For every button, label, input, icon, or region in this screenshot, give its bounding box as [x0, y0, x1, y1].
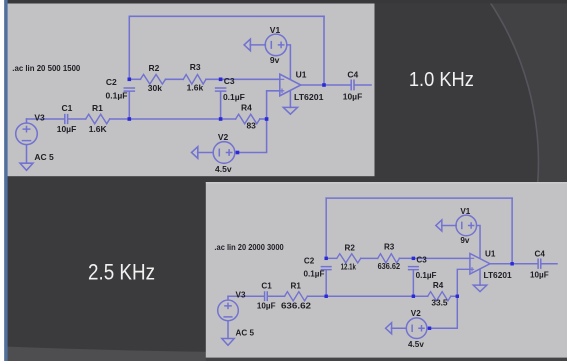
svg-text:R1: R1: [92, 103, 103, 113]
label 1.0 KHz: [409, 68, 474, 91]
svg-text:0.1µF: 0.1µF: [223, 92, 245, 102]
svg-text:0.1µF: 0.1µF: [416, 271, 437, 280]
wire C4 to panel edge: [541, 263, 557, 265]
svg-text:33.5: 33.5: [431, 299, 448, 308]
wire op-amp negative supply to ground: [289, 91, 291, 108]
svg-text:LT6201: LT6201: [483, 271, 512, 280]
svg-text:LT6201: LT6201: [294, 92, 324, 102]
svg-text:9v: 9v: [270, 55, 280, 65]
svg-text:R3: R3: [190, 62, 201, 72]
node R4 feedback junction: [456, 295, 459, 298]
node C3 top junction: [219, 78, 223, 82]
svg-text:2.5 KHz: 2.5 KHz: [88, 260, 155, 285]
resistor R3 636.62: [378, 243, 401, 271]
ground arrow at V1: [436, 220, 442, 231]
capacitor C3 0.1uF: [216, 76, 245, 102]
svg-text:1.0 KHz: 1.0 KHz: [409, 68, 474, 91]
wire node C2 to R2: [129, 78, 140, 80]
voltage source V1 9v: [456, 207, 477, 245]
resistor R1 1.6K: [86, 103, 110, 134]
capacitor C1 10uF: [257, 281, 276, 310]
wire R4 to node: [451, 295, 457, 297]
voltage source V1 9v: [265, 25, 287, 65]
svg-text:10µF: 10µF: [57, 124, 77, 134]
wire C2 lower lead to bottom rail: [128, 91, 130, 119]
wire feedback top: [326, 197, 512, 199]
svg-text:V3: V3: [236, 291, 246, 300]
wire R2 to R3: [166, 78, 184, 80]
wire V3 to C1: [228, 295, 264, 297]
node C2 bottom junction: [128, 117, 132, 121]
wire feedback left vertical: [325, 198, 327, 258]
svg-text:V1: V1: [460, 207, 470, 216]
spice directive .ac lin 20 2000 3000: [214, 243, 284, 252]
svg-text:636.62: 636.62: [281, 301, 312, 310]
wire C4 to panel edge: [355, 84, 371, 86]
svg-text:C3: C3: [224, 76, 235, 86]
svg-text:AC 5: AC 5: [236, 328, 255, 337]
svg-text:1.6k: 1.6k: [187, 82, 204, 92]
schematic 1 circuit: [12, 16, 371, 174]
ground below V3: [20, 163, 33, 170]
wire V1 plus to op-amp supply: [477, 225, 480, 257]
ground below op-amp: [283, 107, 297, 114]
wire R2 to R3: [361, 257, 378, 259]
wire op-amp noninverting input to V2: [427, 269, 470, 328]
bottom strip under panel 2: [206, 358, 567, 361]
svg-text:U1: U1: [485, 250, 496, 259]
wire node C2 to R2: [326, 257, 337, 259]
node C2 top junction: [324, 257, 327, 260]
svg-text:0.1µF: 0.1µF: [106, 91, 128, 101]
wire op-amp negative supply to ground: [479, 269, 481, 285]
resistor R2 12.1k: [337, 243, 361, 271]
schematic panel 1: [8, 4, 375, 177]
svg-text:R3: R3: [384, 243, 395, 252]
svg-text:12.1k: 12.1k: [341, 262, 357, 271]
wire V3 to C1: [27, 118, 65, 120]
wire C1 to R1: [68, 118, 86, 120]
svg-text:0.1µF: 0.1µF: [304, 270, 325, 279]
voltage source V3 AC 5: [16, 113, 54, 163]
ground below V3: [222, 338, 234, 345]
wire bottom rail R1 to R4: [307, 295, 427, 297]
node C2 top junction: [128, 78, 132, 82]
wire C3 lower lead to bottom rail: [220, 91, 222, 119]
node R4 feedback junction: [265, 117, 269, 121]
resistor R4 33.5: [428, 281, 451, 307]
svg-text:C4: C4: [347, 70, 358, 80]
svg-text:C3: C3: [416, 256, 427, 265]
bottom band: [0, 346, 567, 361]
svg-text:V2: V2: [218, 132, 229, 142]
wire V1 ground arrow to V1: [442, 224, 457, 226]
svg-text:.ac lin 20 500 1500: .ac lin 20 500 1500: [12, 63, 80, 73]
node C3 bottom junction: [219, 117, 223, 121]
svg-text:R4: R4: [433, 281, 444, 290]
node C2 bottom junction: [324, 295, 327, 298]
schematic panel 2: [206, 182, 567, 357]
voltage source V2 4.5v: [406, 309, 427, 349]
node V2 positive junction: [236, 151, 240, 155]
svg-text:10µF: 10µF: [257, 302, 276, 311]
svg-text:10µF: 10µF: [530, 271, 549, 280]
node V2 positive junction: [428, 327, 431, 330]
wire V2 ground arrow to V2: [198, 152, 214, 154]
wire V3 top lead: [227, 296, 229, 300]
capacitor C2 0.1uF: [106, 77, 135, 101]
wire feedback right vertical: [511, 198, 513, 264]
capacitor C3 0.1uF: [409, 256, 437, 280]
wire C1 to R1: [268, 295, 285, 297]
svg-text:C2: C2: [304, 257, 315, 266]
svg-text:C2: C2: [106, 77, 117, 87]
left blue edge line: [4, 0, 7, 361]
ground arrow at V2: [386, 323, 392, 334]
resistor R4 83: [236, 103, 260, 131]
svg-text:V1: V1: [270, 25, 281, 35]
op-amp U1 LT6201: [470, 250, 512, 280]
wire V1 plus to op-amp supply: [287, 45, 291, 79]
background circle arc highlight: [489, 0, 567, 182]
svg-text:30k: 30k: [148, 83, 162, 93]
wire C3 to op-amp inverting input: [221, 78, 280, 80]
wire C2 lower lead to bottom rail: [325, 270, 327, 296]
svg-text:C1: C1: [62, 103, 73, 113]
svg-text:R1: R1: [291, 282, 302, 291]
ground arrow at V1: [244, 39, 250, 51]
svg-text:9v: 9v: [460, 236, 470, 245]
wire C3 to op-amp inverting input: [413, 257, 470, 259]
wire op-amp noninverting input to V2: [235, 91, 280, 153]
wire feedback right vertical: [323, 16, 325, 85]
op-amp U1 LT6201: [280, 69, 324, 101]
svg-text:4.5v: 4.5v: [408, 340, 424, 349]
svg-text:V3: V3: [34, 113, 45, 123]
svg-text:AC 5: AC 5: [34, 152, 54, 162]
top dark bar: [0, 0, 567, 4]
ground below op-amp: [473, 285, 487, 291]
voltage source V3 AC 5: [218, 291, 255, 338]
wire feedback top: [129, 15, 324, 17]
svg-text:10µF: 10µF: [343, 92, 363, 102]
capacitor C1 10uF: [57, 103, 77, 134]
svg-text:C1: C1: [261, 281, 272, 290]
svg-text:1.6K: 1.6K: [89, 124, 108, 134]
wire bottom rail R1 to R4: [110, 118, 236, 120]
node op-amp output junction: [510, 262, 513, 265]
wire V3 bottom lead to ground: [227, 321, 229, 339]
label 2.5 KHz: [88, 260, 155, 285]
wire R4 to node: [260, 118, 267, 120]
node C3 bottom junction: [412, 295, 415, 298]
resistor R1 636.62: [281, 282, 312, 311]
svg-text:R4: R4: [241, 103, 252, 113]
wire V3 bottom lead to ground: [26, 145, 28, 164]
svg-text:R2: R2: [149, 63, 160, 73]
wire C3 lower lead to bottom rail: [412, 270, 414, 296]
capacitor C2 0.1uF: [304, 257, 331, 279]
resistor R3 1.6k: [183, 62, 206, 92]
svg-text:83: 83: [246, 121, 256, 131]
voltage source V2 4.5v: [213, 132, 235, 174]
wire V1 ground arrow to V1: [250, 44, 265, 46]
wire V2 ground arrow to V2: [391, 327, 406, 329]
capacitor C4 10uF: [343, 70, 363, 102]
svg-text:U1: U1: [296, 69, 307, 79]
resistor R2 30k: [140, 63, 165, 93]
svg-text:V2: V2: [411, 309, 421, 318]
wire R3 to C3: [206, 78, 221, 80]
wire R3 to C3: [399, 257, 413, 259]
spice directive .ac lin 20 500 1500: [12, 63, 80, 73]
svg-text:.ac lin 20 2000 3000: .ac lin 20 2000 3000: [214, 243, 284, 252]
left white edge: [0, 0, 4, 361]
schematic 2 circuit: [214, 198, 557, 349]
wire op-amp output to C4: [301, 84, 351, 86]
svg-text:C4: C4: [534, 250, 545, 259]
wire V3 top lead: [26, 119, 28, 123]
capacitor C4 10uF: [530, 250, 549, 280]
svg-text:R2: R2: [345, 243, 356, 252]
svg-text:636.62: 636.62: [378, 262, 401, 271]
svg-text:4.5v: 4.5v: [215, 164, 232, 174]
node C3 top junction: [412, 257, 415, 260]
wire feedback left vertical: [128, 16, 130, 79]
ground arrow at V2: [192, 147, 198, 159]
wire op-amp output to C4: [490, 263, 538, 265]
node op-amp output junction: [322, 83, 326, 87]
